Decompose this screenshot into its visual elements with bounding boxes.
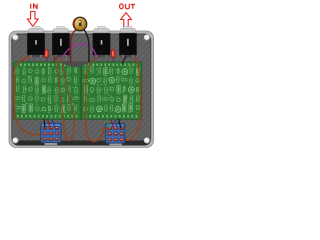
resistor on PCB [130,96,133,103]
corner screw BR [144,137,150,143]
jack pins (OUT) [55,55,67,58]
resistor on PCB [68,86,71,93]
capacitor on PCB [117,98,121,102]
resistor on PCB [36,95,39,102]
footswitch SW2 body [106,124,125,144]
resistor on PCB [48,96,51,103]
LED D2 [111,49,115,61]
wire: jack2 right pin to SW1 area (brown diagonal) [61,58,74,120]
capacitor on PCB [61,88,65,92]
jack pins (IN) [96,55,108,58]
capacitor on PCB [110,97,114,101]
resistor on PCB [56,87,59,94]
resistor on PCB [48,68,51,75]
IC on PCB [129,104,132,112]
capacitor on PCB [35,107,39,111]
jack nub (OUT) [53,26,68,32]
jack nub (IN) [94,26,109,32]
capacitor on PCB [97,78,101,82]
resistor on PCB [16,68,19,75]
resistor on PCB [48,87,51,94]
capacitor on PCB [67,77,71,81]
trimmer on PCB [109,77,115,83]
resistor (horizontal) on PCB [15,106,21,109]
resistor (horizontal) on PCB [83,80,89,83]
diode on PCB [75,68,77,73]
wire: jack2 left pin to SW1 area (brown diagonal) [56,57,64,120]
capacitor on PCB [28,97,32,101]
wire: purple jumper jack2-jack3 [63,44,96,56]
shadow notch between PCBs (enclosure floor) [61,61,90,66]
diode on PCB [55,77,57,82]
resistor on PCB [130,78,133,85]
resistor on PCB [104,78,107,85]
resistor on PCB [62,78,65,85]
enclosure outer bevel [9,31,154,148]
jack nub (OUT) [120,26,135,32]
IC on PCB [104,67,107,75]
trimmer on PCB [90,78,96,84]
resistor on PCB [98,67,101,74]
resistor on PCB [97,87,100,94]
capacitor on PCB [28,69,32,73]
resistor (horizontal) on PCB [73,97,79,100]
resistor on PCB [16,77,19,84]
IC on PCB [123,104,126,112]
corner screw TR [144,34,150,40]
wire: jack4 to SW2 (brown, right side run) [124,58,140,141]
battery clip (9V) [73,17,87,31]
diode on PCB [123,86,125,91]
wires: PCB1 to SW1 hookups (black/red/blue) [44,120,55,128]
arrow IN (down, hollow) [27,12,38,27]
wire: battery black lead [84,30,89,62]
capacitor on PCB [84,107,88,111]
resistor on PCB [85,68,88,75]
capacitor on PCB [42,78,46,82]
IC on PCB [42,86,45,94]
wire: battery red lead [71,30,77,63]
IC on PCB [123,95,126,103]
resistor on PCB [137,95,140,102]
jack shadow (IN) [28,55,43,58]
jack pins (IN) [30,55,42,58]
PCB 1 (left board) [14,62,81,120]
diode on PCB [136,87,138,92]
capacitor on PCB [22,79,26,83]
IC on PCB [117,85,120,93]
capacitor on PCB [42,107,46,111]
resistor on PCB [110,68,113,75]
wire: SW2 left lug connection (brown) [104,129,109,132]
capacitor on PCB [55,69,59,73]
resistor on PCB [91,67,94,74]
capacitor on PCB [35,70,39,74]
wire: U loop between switches (brown) [64,120,74,141]
diode on PCB [42,69,44,74]
trimmer on PCB [122,69,128,75]
wires: PCB2 to SW2 hookups (green/red/blue/black) [107,120,121,128]
resistor (horizontal) on PCB [89,99,95,102]
corner screw BL [12,137,18,143]
wire: jack3 left pin across PCB2 (brown) [86,58,97,120]
jack shadow (OUT) [53,55,68,58]
resistor on PCB [74,77,77,84]
enclosure interior [12,34,151,145]
resistor on PCB [74,105,77,112]
trimmer on PCB [97,106,103,112]
capacitor on PCB [90,87,94,91]
label IN (red) [31,4,37,9]
wire: jack4 pin lead (black) [122,57,126,65]
resistor on PCB [36,87,39,94]
resistor on PCB [110,105,113,112]
jack pins (OUT) [122,55,134,58]
resistor on PCB [117,76,120,83]
LED D1 [45,49,49,62]
resistor on PCB [29,76,32,83]
resistor (horizontal) on PCB [122,78,128,81]
footswitch SW1 body [41,123,61,143]
wire: jack1 to footswitch SW1 (brown, left side run) [14,57,41,135]
capacitor on PCB [136,78,140,82]
jack shadow (OUT) [120,55,135,58]
capacitor on PCB [136,105,140,109]
wire: PCB2 to SW2 loop (brown) [86,120,106,141]
resistor (horizontal) on PCB [14,97,20,100]
IC on PCB [62,105,65,113]
capacitor on PCB [28,87,32,91]
PCB pad strip (bottom) [85,115,138,118]
enclosure bottom inner shadow [13,141,150,146]
resistor on PCB [61,67,64,74]
solder pads [16,67,78,114]
resistor on PCB [55,105,58,112]
resistor on PCB [105,105,108,112]
PCB pad strip (top) [84,63,138,66]
resistor on PCB [68,67,71,74]
resistor on PCB [16,85,19,92]
footswitch SW1 foot [45,142,58,145]
label OUT (red) [120,4,136,9]
PCB 2 (right board) [82,62,142,120]
resistor on PCB [84,95,87,102]
PCB pad strip (top) [16,63,78,66]
jack body OUT [52,33,69,55]
resistor (horizontal) on PCB [102,98,108,101]
resistor on PCB [130,67,133,74]
jack body IN [27,33,44,55]
capacitor on PCB [41,97,45,101]
trimmer on PCB [115,107,121,113]
jack body OUT [119,33,136,55]
IC on PCB [35,77,38,85]
footswitch SW2 foot [109,142,122,145]
corner screw TL [12,34,18,40]
resistor on PCB [67,95,70,102]
IC on PCB [29,104,32,112]
footswitch SW1 lugs (3x3) [43,127,59,141]
jack body IN [93,33,110,55]
wire: SW1 hook (brown) [61,132,67,141]
capacitor on PCB [60,98,64,102]
resistor on PCB [49,76,52,83]
resistor on PCB [23,86,26,93]
resistor on PCB [55,95,58,102]
diode on PCB [117,68,119,73]
resistor on PCB [68,104,71,111]
capacitor on PCB [110,87,114,91]
IC on PCB [22,105,25,113]
resistor on PCB [91,106,94,113]
jack shadow (IN) [94,55,109,58]
trimmer on PCB [129,87,135,93]
resistor on PCB [98,95,101,102]
arrow OUT (up, hollow) [121,13,132,27]
solder pads [84,66,139,113]
diode on PCB [48,106,50,111]
resistor on PCB [23,68,26,75]
IC on PCB [84,86,87,94]
footswitch SW2 lugs (3x3) [108,127,124,141]
resistor on PCB [22,95,25,102]
PCB pad strip (bottom) [17,115,78,118]
wire: jack2 pin lead (dark red) [54,57,57,63]
resistor on PCB [75,87,78,94]
jack nub (IN) [29,26,44,32]
IC on PCB [136,68,139,76]
resistor on PCB [105,87,108,94]
